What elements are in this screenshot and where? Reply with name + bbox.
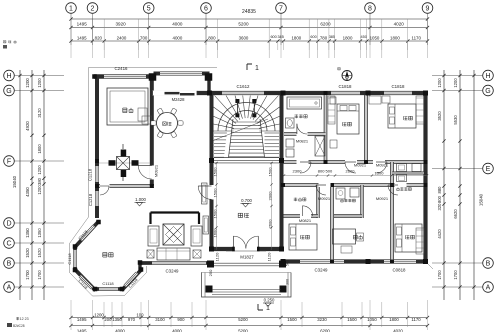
- svg-text:385: 385: [278, 35, 284, 39]
- svg-text:H: H: [6, 73, 11, 80]
- svg-text:C2416: C2416: [115, 66, 128, 71]
- wardrobe bedroom1: [328, 96, 335, 124]
- svg-text:780: 780: [320, 35, 328, 40]
- grid axis bubble H (right): [483, 70, 494, 81]
- svg-text:7: 7: [279, 5, 283, 12]
- tea room octagon walls: [75, 222, 99, 248]
- door gap study: [319, 183, 331, 187]
- cloakroom door leaf: [302, 206, 304, 216]
- label bedroom1: [342, 122, 344, 126]
- stair newel b: [252, 99, 256, 103]
- bed bedroom2 (horizontal): [388, 104, 416, 128]
- extension line top: [427, 19, 429, 58]
- svg-text:1500: 1500: [213, 209, 218, 219]
- duct shaft with X: [315, 136, 325, 156]
- living armchair left: [148, 226, 159, 246]
- porch side left: [204, 273, 206, 298]
- svg-text:1050: 1050: [367, 317, 377, 322]
- svg-text:G: G: [485, 88, 490, 95]
- wall small bath east: [360, 185, 363, 218]
- svg-text:1200: 1200: [453, 78, 458, 88]
- svg-text:1350: 1350: [25, 228, 30, 238]
- svg-text:0.700: 0.700: [241, 198, 252, 203]
- column at 425.5,93: [423, 91, 428, 96]
- column at 281.5,249: [279, 247, 284, 252]
- opening jamb right: [196, 91, 198, 95]
- svg-text:880: 880: [437, 186, 442, 194]
- grid axis bubble A (right): [483, 282, 494, 293]
- svg-text:A: A: [486, 284, 491, 291]
- column at 325.5,93: [324, 91, 328, 95]
- svg-text:250: 250: [208, 269, 213, 276]
- grid extension line 7: [280, 13, 282, 45]
- grid extension line B: [14, 262, 64, 264]
- wall kitchen/dining divide: [150, 80, 154, 186]
- svg-text:1520: 1520: [25, 248, 30, 258]
- kitchen counter: [107, 88, 148, 125]
- svg-text:6: 6: [204, 5, 208, 12]
- wall corridor south: [284, 183, 428, 187]
- extension line top: [369, 19, 371, 58]
- svg-text:1800: 1800: [390, 35, 400, 40]
- wall bath/bedroom1: [324, 95, 328, 162]
- column at 151.8,76.5: [150, 74, 155, 79]
- eave outline porch/right: [201, 264, 433, 273]
- svg-text:15040: 15040: [479, 193, 484, 206]
- svg-text:C1818: C1818: [339, 84, 352, 89]
- window C1218 lower: [95, 191, 99, 206]
- porch upper edge 1: [214, 262, 279, 264]
- extension line bottom: [301, 302, 303, 327]
- extension line bottom: [381, 302, 383, 327]
- north arrow: [342, 71, 352, 81]
- grid extension line 1: [70, 13, 72, 45]
- label kitchen: [123, 107, 127, 109]
- kitchen sink/stove: [138, 108, 147, 121]
- svg-text:1800: 1800: [389, 317, 399, 322]
- grid axis bubble 8 (top): [365, 3, 376, 14]
- svg-text:1200: 1200: [94, 313, 104, 318]
- column at 122,289: [120, 287, 125, 292]
- bathroom bathtub: [287, 97, 322, 109]
- column at 425.5,261.5: [423, 259, 428, 264]
- svg-text:3100: 3100: [155, 317, 165, 322]
- grid extension line 9: [427, 13, 429, 45]
- right dimension line col1: [443, 70, 445, 300]
- foyer interior dim line left: [216, 162, 218, 250]
- wall living south: [139, 261, 212, 265]
- grid axis bubble E (right): [483, 163, 494, 174]
- svg-text:1350: 1350: [37, 228, 42, 238]
- extension line bottom: [361, 302, 363, 327]
- extension line bottom: [121, 302, 123, 327]
- window C3249 south: [300, 259, 344, 263]
- opening M2428 gap: [153, 91, 198, 96]
- svg-text:1170: 1170: [411, 317, 421, 322]
- svg-text:15040: 15040: [12, 175, 17, 188]
- svg-text:G: G: [6, 88, 11, 95]
- master bath fixtures: [397, 164, 407, 172]
- stair newel c: [235, 113, 239, 117]
- living room rug (thick outline): [151, 211, 200, 213]
- wall corridor north: [284, 160, 428, 164]
- grid axis bubble G (left): [4, 85, 15, 96]
- label master bath: [397, 187, 399, 188]
- svg-text:M0921: M0921: [376, 196, 389, 201]
- column at 75,270: [73, 268, 78, 273]
- svg-text:1800: 1800: [37, 144, 42, 154]
- laundry machines: [286, 139, 294, 147]
- living coffee table: [163, 224, 184, 245]
- svg-text:1800: 1800: [343, 35, 353, 40]
- door gap foyer west: [210, 185, 214, 200]
- label bedroom3: [300, 235, 302, 239]
- grid extension line 8: [369, 13, 371, 45]
- svg-text:1700: 1700: [453, 270, 458, 280]
- column at 283,261.5: [281, 259, 286, 264]
- north label: [346, 77, 349, 79]
- door gap corridor1: [297, 160, 309, 164]
- door gap cloakroom: [300, 214, 311, 218]
- svg-text:6200: 6200: [320, 22, 331, 27]
- svg-text:380: 380: [37, 177, 42, 185]
- svg-text:1120: 1120: [267, 252, 272, 261]
- living sofa bottom: [157, 248, 190, 260]
- svg-text:1495: 1495: [77, 22, 88, 27]
- svg-text:970: 970: [128, 317, 136, 322]
- svg-text:9: 9: [426, 5, 430, 12]
- extension line top: [217, 19, 219, 58]
- column at 325.5,162: [324, 160, 328, 164]
- wall west exterior: [95, 77, 99, 219]
- svg-text:C3249: C3249: [315, 268, 328, 273]
- column at 281.5,160.5: [279, 158, 284, 163]
- grid extension line 6: [205, 13, 207, 45]
- window C1612 stair: [222, 91, 264, 95]
- door bathroom: [297, 124, 307, 134]
- svg-text:1700: 1700: [37, 270, 42, 280]
- wall foyer front: [212, 247, 282, 251]
- staircase: [229, 119, 265, 158]
- column at 283,185: [281, 183, 285, 187]
- nightstand bedroom2: [382, 96, 390, 103]
- svg-text:1500: 1500: [268, 167, 273, 177]
- svg-text:4920: 4920: [25, 121, 30, 131]
- section mark 1 (top): [247, 64, 252, 70]
- svg-text:C1118: C1118: [102, 281, 114, 286]
- svg-text:6200: 6200: [320, 329, 330, 332]
- svg-text:1700: 1700: [437, 270, 442, 280]
- wall dining bay right: [207, 74, 210, 94]
- svg-text:C1118: C1118: [67, 253, 72, 265]
- svg-text:C0818: C0818: [393, 268, 406, 273]
- right dimension line col3: [473, 70, 475, 300]
- bathroom toilet: [286, 118, 295, 128]
- bottom dimension line row1: [71, 317, 428, 319]
- svg-text:2300: 2300: [293, 169, 303, 174]
- stamp box top: [3, 45, 7, 49]
- extension line bottom: [140, 302, 142, 327]
- wall bedroom3/study: [330, 185, 334, 261]
- grid extension line H right: [432, 75, 483, 77]
- wall bedroom1/bedroom2: [364, 95, 368, 162]
- door gap bedroom4: [395, 183, 407, 187]
- svg-text:4000: 4000: [115, 329, 125, 332]
- grid extension line A: [14, 286, 64, 288]
- column at 392,185: [390, 183, 394, 187]
- svg-text:8: 8: [368, 5, 372, 12]
- grid axis bubble 9 (top): [422, 3, 433, 14]
- svg-text:1300: 1300: [375, 171, 385, 176]
- svg-text:2000: 2000: [268, 191, 273, 201]
- bed bedroom3 (lower left of right wing): [289, 224, 317, 250]
- dining table round: [157, 113, 178, 134]
- corridor interior dim line: [284, 175, 427, 177]
- door M0921 corridor2: [345, 162, 356, 173]
- svg-text:6620: 6620: [453, 209, 458, 219]
- column at 97,186: [95, 184, 99, 188]
- svg-text:450: 450: [361, 35, 367, 39]
- wall small bath south: [334, 214, 362, 217]
- grid axis bubble 5 (top): [143, 3, 154, 14]
- svg-text:1500: 1500: [213, 167, 218, 177]
- window C1818 bedroom1: [331, 91, 360, 95]
- extension line top: [103, 19, 105, 58]
- door M1827 right leaf: [246, 236, 258, 248]
- grid extension line 5: [148, 13, 150, 45]
- svg-text:1200: 1200: [37, 165, 42, 175]
- column at 140,262.5: [138, 260, 143, 265]
- porch step 2: [212, 294, 281, 296]
- porch pilaster left: [207, 261, 214, 268]
- label dining: [163, 121, 167, 123]
- svg-text:2400: 2400: [117, 35, 127, 40]
- top dimension line total: [71, 18, 428, 20]
- F axis line through pier: [99, 162, 150, 164]
- svg-text:4350: 4350: [25, 187, 30, 197]
- extension line bottom: [103, 302, 105, 327]
- svg-text:385: 385: [329, 35, 335, 39]
- north annotation: [338, 67, 341, 69]
- grid axis bubble F (left): [4, 156, 15, 167]
- door jamb right: [257, 247, 260, 252]
- svg-text:4420: 4420: [437, 229, 442, 239]
- svg-text:4020: 4020: [393, 329, 403, 332]
- door foyer west: [198, 186, 211, 199]
- door gap corridor3: [373, 160, 385, 164]
- column at 95,289: [93, 287, 98, 292]
- sliding door panel 2: [180, 93, 195, 96]
- extension line bottom: [341, 302, 343, 327]
- foyer interior dim line right: [271, 162, 273, 250]
- bathroom south wall with door: [284, 132, 326, 136]
- svg-text:300: 300: [286, 279, 290, 285]
- porch side right: [287, 273, 289, 298]
- grid axis bubble 1 (top): [66, 3, 77, 14]
- svg-text:1500: 1500: [287, 317, 297, 322]
- svg-text:3520: 3520: [437, 111, 442, 121]
- svg-text:1495: 1495: [77, 35, 87, 40]
- wall dining bay top: [154, 72, 210, 76]
- bottom dimension line row2: [71, 325, 428, 327]
- svg-text:24835: 24835: [242, 9, 256, 15]
- svg-text:H: H: [485, 73, 490, 80]
- top dimension line row2: [71, 40, 428, 42]
- svg-text:800: 800: [437, 195, 442, 203]
- svg-text:4020: 4020: [394, 22, 405, 27]
- svg-text:M0821: M0821: [296, 139, 309, 144]
- window C1118 south: [99, 287, 118, 291]
- door M0921 corridor1: [300, 162, 311, 173]
- decorative cross pier: [117, 157, 130, 170]
- grid axis bubble 6 (top): [201, 3, 212, 14]
- door gap kitchen-tea: [100, 184, 110, 189]
- column at 425.5,185: [424, 183, 428, 187]
- left dimension line col1: [31, 70, 33, 300]
- column at 211.5,160.5: [209, 158, 214, 163]
- extension line top: [328, 19, 330, 58]
- svg-text:0.250: 0.250: [264, 298, 275, 303]
- svg-text:900: 900: [177, 317, 185, 322]
- opening jamb left: [152, 91, 154, 95]
- svg-text:M0821: M0821: [299, 218, 312, 223]
- extension line top: [366, 19, 368, 58]
- extension line top: [205, 19, 207, 58]
- wardrobe bedroom2: [416, 96, 424, 124]
- column at 392,261.5: [390, 260, 394, 264]
- column at 209.5,93: [207, 91, 212, 96]
- window C1118 NE diag: [81, 226, 94, 240]
- master bath middle wall: [392, 172, 424, 175]
- extension line top: [70, 19, 72, 58]
- grid extension line C: [14, 242, 64, 244]
- column at 332,261.5: [330, 260, 334, 264]
- porch step 3: [212, 289, 281, 291]
- grid extension line F: [14, 160, 64, 162]
- stair landing line1: [214, 160, 279, 162]
- door opening in divide wall: [150, 166, 154, 180]
- svg-text:1050: 1050: [370, 35, 380, 40]
- wall cloakroom south: [284, 214, 319, 217]
- window C2416 kitchen top: [104, 74, 146, 79]
- wall south right section: [281, 259, 428, 263]
- column at 208.5,77: [205, 73, 213, 81]
- column at 75,246.5: [73, 244, 78, 249]
- grid extension line D: [14, 222, 64, 224]
- svg-text:1200: 1200: [37, 185, 42, 195]
- svg-text:5200: 5200: [238, 329, 248, 332]
- svg-text:1495: 1495: [77, 317, 87, 322]
- svg-text:3920: 3920: [115, 22, 126, 27]
- wall kitchen bottom: [95, 184, 154, 188]
- study desk: [333, 229, 356, 244]
- door M0921 study: [316, 185, 326, 195]
- wall kitchen top: [94, 74, 154, 79]
- extension line top: [280, 19, 282, 58]
- svg-text:5200: 5200: [238, 317, 248, 322]
- svg-text:3600: 3600: [239, 35, 249, 40]
- door M0921 dining arc: [138, 166, 152, 180]
- svg-text:M0921: M0921: [154, 164, 159, 177]
- porch column right: [280, 286, 287, 293]
- label bedroom4: [405, 235, 407, 239]
- sliding door panel 1: [165, 92, 180, 95]
- window C0818 south: [384, 259, 416, 263]
- small stamp text: [16, 317, 19, 319]
- grid axis bubble B (right): [483, 258, 494, 269]
- grid extension line H: [14, 75, 64, 77]
- svg-text:1: 1: [69, 5, 73, 12]
- stair newel: [235, 99, 239, 103]
- bed bedroom1 (vertical): [337, 104, 359, 134]
- svg-text:1495: 1495: [77, 329, 87, 332]
- living armchair right: [191, 226, 202, 246]
- living side tables: [147, 250, 154, 258]
- svg-text:1200: 1200: [37, 78, 42, 88]
- wall main top: [154, 91, 428, 95]
- extension line bottom: [111, 302, 113, 327]
- window C1118 SW diag: [80, 276, 92, 288]
- column at 332,185: [330, 183, 334, 187]
- label tea room: [103, 252, 107, 254]
- extension line top: [317, 19, 319, 58]
- cabinet by foyer wall: [203, 216, 209, 234]
- grid extension line 2: [92, 13, 94, 45]
- column at 283,93: [281, 91, 286, 96]
- label foyer: [238, 212, 242, 214]
- svg-text:1.000: 1.000: [135, 197, 146, 202]
- svg-text:B: B: [7, 260, 12, 267]
- extension line bottom: [170, 302, 172, 327]
- threshold line: [226, 250, 266, 252]
- grid axis bubble D (left): [4, 218, 15, 229]
- svg-text:A: A: [7, 284, 12, 291]
- svg-text:2: 2: [91, 5, 95, 12]
- svg-text:500: 500: [286, 260, 290, 266]
- svg-text:320: 320: [437, 203, 442, 211]
- bed bedroom4: [395, 224, 422, 252]
- grid axis bubble A (left): [4, 282, 15, 293]
- svg-text:200: 200: [104, 317, 112, 322]
- svg-text:B: B: [486, 260, 491, 267]
- door M0921 leaf: [138, 165, 152, 167]
- left dimension line col2: [43, 70, 45, 300]
- column at 94.5,76.5: [92, 74, 97, 79]
- extension line top: [138, 19, 140, 58]
- porch pilaster right: [279, 261, 286, 268]
- svg-text:100: 100: [136, 313, 144, 318]
- svg-text:4000: 4000: [172, 329, 182, 332]
- extension line top: [407, 19, 409, 58]
- label bathroom upper: [295, 114, 299, 116]
- svg-text:4000: 4000: [173, 35, 183, 40]
- window C1218 upper: [95, 166, 99, 182]
- porch slab outline: [202, 273, 292, 298]
- grid axis bubble B (left): [4, 258, 15, 269]
- label bedroom2: [403, 116, 405, 120]
- extension line top: [92, 19, 94, 58]
- svg-text:1700: 1700: [25, 270, 30, 280]
- svg-text:1200: 1200: [25, 78, 30, 88]
- svg-text:1200: 1200: [437, 78, 442, 88]
- svg-text:C1218: C1218: [88, 168, 93, 181]
- door M0821 cloakroom: [303, 206, 313, 216]
- wall foyer east: [280, 95, 284, 251]
- top dimension line row1: [71, 27, 428, 29]
- svg-text:12 23: 12 23: [20, 317, 29, 321]
- svg-text:B2#C28: B2#C28: [13, 324, 25, 328]
- window C3249 living: [152, 261, 206, 265]
